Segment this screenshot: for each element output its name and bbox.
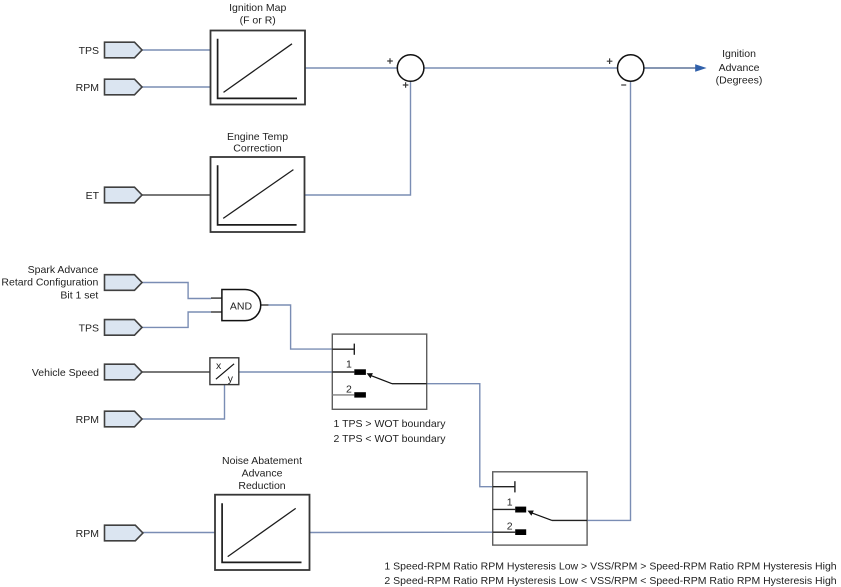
svg-text:2 Speed-RPM Ratio RPM Hysteres: 2 Speed-RPM Ratio RPM Hysteresis Low < V… <box>384 575 836 587</box>
svg-text:Ignition Map: Ignition Map <box>229 2 286 14</box>
svg-text:Vehicle Speed: Vehicle Speed <box>32 367 99 379</box>
svg-text:Ignition: Ignition <box>722 48 756 60</box>
svg-text:1 Speed-RPM Ratio RPM Hysteres: 1 Speed-RPM Ratio RPM Hysteresis Low > V… <box>384 560 836 572</box>
svg-text:2: 2 <box>346 383 352 395</box>
svg-text:1: 1 <box>346 358 352 370</box>
svg-text:Bit 1 set: Bit 1 set <box>60 290 98 302</box>
svg-text:RPM: RPM <box>76 82 99 94</box>
svg-text:(Degrees): (Degrees) <box>716 75 763 87</box>
svg-text:TPS: TPS <box>79 322 99 334</box>
svg-text:2 TPS < WOT boundary: 2 TPS < WOT boundary <box>334 433 447 445</box>
svg-text:TPS: TPS <box>79 45 99 57</box>
svg-text:(F or R): (F or R) <box>240 14 276 26</box>
svg-text:ET: ET <box>86 190 100 202</box>
svg-text:Advance: Advance <box>242 468 283 480</box>
svg-text:Engine Temp: Engine Temp <box>227 131 288 143</box>
svg-text:Spark Advance: Spark Advance <box>28 264 99 276</box>
svg-text:2: 2 <box>507 521 513 533</box>
svg-text:RPM: RPM <box>76 414 99 426</box>
svg-text:Noise Abatement: Noise Abatement <box>222 455 302 467</box>
svg-text:y: y <box>228 373 234 385</box>
svg-text:AND: AND <box>230 300 253 312</box>
svg-text:x: x <box>216 360 222 372</box>
svg-text:Correction: Correction <box>233 143 282 155</box>
svg-text:Advance: Advance <box>719 62 760 74</box>
svg-text:Retard Configuration: Retard Configuration <box>1 277 98 289</box>
svg-text:1 TPS > WOT boundary: 1 TPS > WOT boundary <box>334 418 447 430</box>
svg-text:RPM: RPM <box>76 528 99 540</box>
svg-text:Reduction: Reduction <box>238 480 285 492</box>
svg-text:1: 1 <box>507 497 513 509</box>
